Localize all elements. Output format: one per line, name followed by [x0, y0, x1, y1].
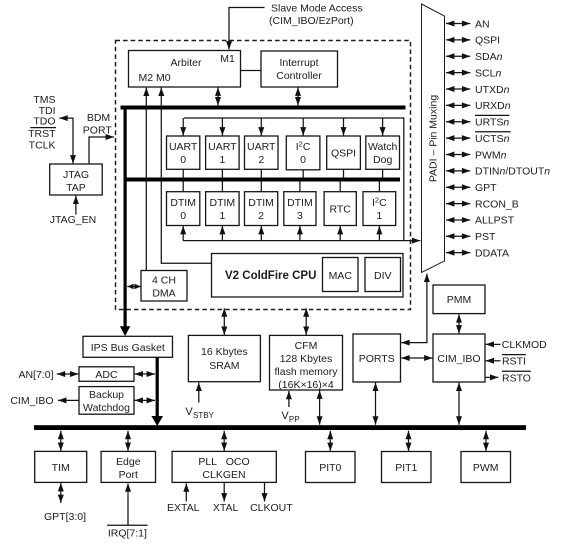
svg-text:DTINn/DTOUTn: DTINn/DTOUTn	[475, 166, 550, 178]
svg-text:PST: PST	[475, 231, 496, 243]
svg-text:RCON_B: RCON_B	[475, 198, 519, 210]
svg-text:Backup: Backup	[89, 389, 124, 401]
svg-text:JTAG: JTAG	[63, 169, 89, 181]
svg-text:QSPI: QSPI	[331, 147, 356, 159]
svg-text:PADI – Pin Muxing: PADI – Pin Muxing	[428, 95, 440, 183]
svg-text:PORTS: PORTS	[359, 353, 395, 365]
svg-text:PIT0: PIT0	[319, 462, 341, 474]
svg-text:SDAn: SDAn	[475, 51, 503, 63]
svg-text:UCTSn: UCTSn	[475, 133, 510, 145]
svg-text:DTIM: DTIM	[287, 197, 313, 209]
svg-text:Slave Mode Access: Slave Mode Access	[271, 3, 363, 15]
svg-text:M1: M1	[220, 53, 235, 65]
svg-text:TDO: TDO	[33, 115, 55, 127]
svg-text:PIT1: PIT1	[395, 462, 417, 474]
svg-text:V2 ColdFire CPU: V2 ColdFire CPU	[225, 270, 316, 282]
svg-text:RSTI: RSTI	[502, 356, 526, 368]
svg-text:DTIM: DTIM	[248, 197, 274, 209]
svg-text:TIM: TIM	[52, 462, 70, 474]
svg-text:GPT[3:0]: GPT[3:0]	[44, 511, 86, 523]
svg-text:UART: UART	[208, 141, 237, 153]
svg-text:IPS Bus Gasket: IPS Bus Gasket	[91, 342, 165, 354]
svg-text:CLKOUT: CLKOUT	[250, 502, 293, 514]
svg-text:UTXDn: UTXDn	[475, 84, 510, 96]
svg-text:Watchdog: Watchdog	[83, 402, 130, 414]
svg-text:IRQ[7:1]: IRQ[7:1]	[108, 528, 147, 540]
svg-text:Edge: Edge	[116, 456, 141, 468]
svg-text:URTSn: URTSn	[475, 117, 509, 129]
svg-text:TAP: TAP	[66, 182, 86, 194]
svg-text:GPT: GPT	[475, 182, 497, 194]
svg-text:ADC: ADC	[95, 369, 118, 381]
svg-text:flash memory: flash memory	[274, 366, 338, 378]
svg-text:Port: Port	[119, 469, 138, 481]
svg-text:M2 M0: M2 M0	[139, 72, 171, 84]
svg-text:2: 2	[258, 154, 264, 166]
svg-text:3: 3	[297, 210, 303, 222]
svg-text:UART: UART	[247, 141, 276, 153]
svg-text:ALLPST: ALLPST	[475, 215, 515, 227]
svg-text:DMA: DMA	[152, 288, 175, 300]
svg-text:DIV: DIV	[374, 270, 392, 282]
svg-text:QSPI: QSPI	[475, 35, 500, 47]
svg-text:PLL OCO: PLL OCO	[198, 456, 249, 468]
svg-text:I2C: I2C	[296, 140, 311, 154]
svg-text:0: 0	[180, 210, 186, 222]
svg-text:PP: PP	[289, 415, 300, 424]
svg-text:CLKMOD: CLKMOD	[502, 339, 547, 351]
svg-text:SCLn: SCLn	[475, 67, 501, 79]
svg-text:SRAM: SRAM	[209, 360, 239, 372]
svg-text:DTIM: DTIM	[170, 197, 196, 209]
svg-text:Arbiter: Arbiter	[171, 57, 202, 69]
svg-text:STBY: STBY	[193, 411, 215, 420]
svg-text:AN: AN	[475, 18, 490, 30]
svg-text:1: 1	[376, 210, 382, 222]
svg-text:4 CH: 4 CH	[152, 275, 176, 287]
svg-text:MAC: MAC	[329, 270, 353, 282]
svg-text:URXDn: URXDn	[475, 100, 511, 112]
svg-text:JTAG_EN: JTAG_EN	[50, 214, 96, 226]
svg-text:TCLK: TCLK	[29, 139, 56, 151]
svg-text:2: 2	[258, 210, 264, 222]
svg-text:TRST: TRST	[28, 128, 56, 140]
svg-text:CFM: CFM	[295, 340, 318, 352]
svg-text:PWMn: PWMn	[475, 149, 507, 161]
svg-text:Dog: Dog	[373, 154, 392, 166]
svg-text:RSTO: RSTO	[502, 372, 531, 384]
svg-text:PORT: PORT	[83, 125, 113, 137]
svg-text:I2C: I2C	[372, 195, 387, 209]
svg-text:DDATA: DDATA	[475, 247, 509, 259]
svg-text:0: 0	[180, 154, 186, 166]
svg-text:CLKGEN: CLKGEN	[202, 469, 245, 481]
svg-text:PWM: PWM	[473, 462, 499, 474]
svg-text:Controller: Controller	[276, 70, 322, 82]
svg-text:128 Kbytes: 128 Kbytes	[280, 353, 333, 365]
svg-text:0: 0	[300, 154, 306, 166]
svg-text:Watch: Watch	[368, 141, 398, 153]
svg-text:UART: UART	[169, 141, 198, 153]
svg-text:AN[7:0]: AN[7:0]	[18, 369, 53, 381]
svg-text:16 Kbytes: 16 Kbytes	[201, 346, 248, 358]
svg-text:RTC: RTC	[330, 203, 352, 215]
svg-text:DTIM: DTIM	[210, 197, 236, 209]
svg-text:CIM_IBO: CIM_IBO	[437, 353, 480, 365]
svg-text:Interrupt: Interrupt	[279, 57, 318, 69]
svg-text:(16K×16)×4: (16K×16)×4	[278, 379, 334, 391]
svg-text:1: 1	[219, 154, 225, 166]
svg-text:CIM_IBO: CIM_IBO	[10, 395, 53, 407]
svg-text:BDM: BDM	[87, 112, 110, 124]
svg-text:XTAL: XTAL	[213, 502, 239, 514]
svg-text:EXTAL: EXTAL	[167, 502, 200, 514]
svg-text:PMM: PMM	[447, 294, 472, 306]
svg-text:1: 1	[219, 210, 225, 222]
svg-text:(CIM_IBO/EzPort): (CIM_IBO/EzPort)	[269, 15, 354, 27]
